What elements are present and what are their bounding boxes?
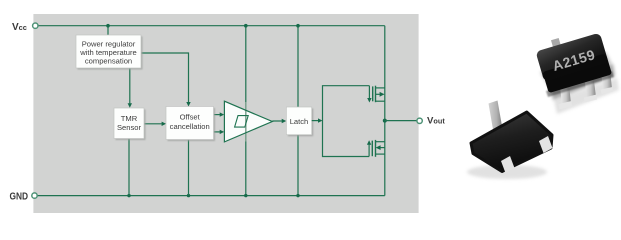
package photo: back SOT-23 rear lead tab [551, 38, 561, 47]
Vout terminal [417, 118, 422, 123]
block: offset cancellation box [166, 107, 215, 142]
wire: output drain line Vcc corner to GND corner [384, 26, 386, 196]
wire: power regulator to TMR sensor [129, 68, 131, 103]
transistor Q1 body arrow stub [376, 93, 380, 95]
package photo: front SOT-23 top pin [489, 101, 503, 130]
block: power regulator box [76, 35, 143, 70]
transistor Q2 source stub [376, 153, 385, 155]
wire: GND rail [37, 195, 385, 197]
wire: offset bottom to GND [188, 140, 190, 196]
block: TMR sensor box [114, 108, 146, 140]
node: GND junction TMR [127, 194, 130, 197]
transistor Q2 gate bar [371, 141, 373, 157]
transistor Q2 (lower NMOS) gate feed [368, 145, 370, 157]
transistor Q1 drain stub [376, 100, 385, 102]
wire: latch supply line [297, 26, 299, 196]
package photo: shadow under back SOT-23 [540, 52, 612, 86]
node: Vcc rail junction comparator line [244, 24, 248, 28]
wire: offset to comparator input 1 [214, 114, 220, 116]
svg-text:TMR: TMR [121, 114, 138, 123]
wire: gate drive bracket [323, 86, 370, 157]
wire: comparator output to latch [272, 120, 282, 122]
block: latch box [286, 107, 313, 136]
transistor Q1 (upper PMOS) gate feed [368, 86, 370, 99]
node: Vcc rail junction latch line [296, 24, 300, 28]
node: GND junction comparator [244, 194, 247, 197]
package photo: back SOT-23 lead 1 [559, 85, 573, 110]
node: GND junction offset [187, 194, 190, 197]
svg-text:cancellation: cancellation [170, 122, 210, 131]
wire: output to Vout terminal [385, 120, 417, 122]
wire: latch output to driver [312, 120, 319, 122]
wire: drop from Vcc rail to power regulator [107, 26, 109, 35]
hysteresis symbol inside comparator [235, 116, 249, 128]
svg-text:Offset: Offset [180, 113, 201, 122]
transistor Q2 drain stub [376, 141, 385, 143]
wire: power regulator to offset cancellation [141, 53, 189, 102]
transistor Q2 channel bar [375, 140, 377, 157]
transistor Q1 gate bar [372, 86, 374, 101]
svg-text:Vcc: Vcc [12, 22, 27, 33]
transistor Q2 body arrow stub [380, 147, 384, 149]
package photo: soft shadow among back leads [554, 78, 619, 114]
package photo: front SOT-23 right tabs [501, 156, 515, 173]
node: Vcc rail junction above power regulator [106, 24, 110, 28]
transistor Q1 channel bar [375, 86, 377, 103]
package photo: front SOT-23 body [471, 112, 552, 172]
svg-text:with temperature: with temperature [79, 48, 137, 57]
Vcc terminal [33, 23, 38, 28]
op-amp comparator triangle [224, 101, 272, 142]
GND terminal [32, 193, 37, 198]
wire: comparator mid supply line [245, 26, 247, 196]
node: GND junction latch [296, 194, 299, 197]
package photo: shadow strip under back body edge [546, 71, 614, 97]
package photo: back SOT-23 body with A2159 marking [535, 33, 612, 94]
package photo: back SOT-23 lead 2 [584, 77, 597, 103]
wire: TMR to offset cancellation [144, 123, 162, 125]
transistor Q1 source stub [376, 87, 385, 89]
svg-text:Vout: Vout [427, 116, 445, 127]
svg-text:Latch: Latch [290, 117, 309, 126]
package photo: shadow under front SOT-23 [467, 165, 547, 179]
wire: Vcc rail [38, 25, 385, 27]
wire: TMR bottom to GND [128, 139, 130, 196]
svg-text:Sensor: Sensor [117, 123, 142, 132]
package photo: back SOT-23 lead 3 [601, 70, 614, 95]
wire: offset to comparator input 2 [214, 131, 220, 133]
IC package outline (grey panel) [33, 14, 418, 213]
svg-text:compensation: compensation [85, 57, 132, 66]
svg-text:GND: GND [10, 191, 29, 202]
node: output junction [383, 119, 387, 123]
svg-text:Power regulator: Power regulator [82, 39, 136, 48]
